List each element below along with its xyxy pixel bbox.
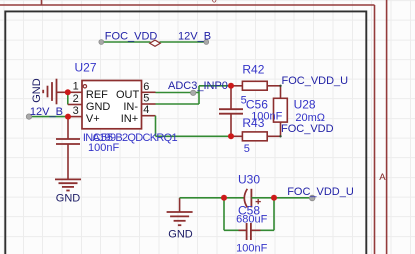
svg-text:4: 4 [143,104,149,116]
net label anchor (FOC_VDD) [279,135,281,137]
wire IN+ horizontal [156,135,232,137]
svg-text:100nF: 100nF [88,142,119,154]
wire OUT to ADC3_INP0 [156,92,200,94]
sheet frame outer right line [386,0,388,254]
net label anchor (FOC_VDD_U top) [279,85,281,87]
wire REF to GND pin tie [67,92,69,104]
resistor R43 [231,132,281,141]
svg-text:3: 3 [73,105,79,117]
svg-text:REF: REF [86,89,108,101]
junction dot (IN- / R42 / C56) [228,83,234,89]
svg-text:ADC3_INP0: ADC3_INP0 [168,80,228,92]
wire end dot (FOC_VDD) [99,40,104,45]
capacitor C55 [56,139,80,179]
wire IN- to R42 node [199,85,231,87]
pin 3 V+ [68,116,82,118]
svg-text:680uF: 680uF [236,214,267,226]
capacitor C56 [219,86,243,137]
U27 pin 1 indicator circle [83,85,86,88]
op-amp U27 body [82,81,142,129]
wire parallel loop right leg [273,198,275,231]
svg-text:GND: GND [168,228,193,240]
wire IN+ vertical [155,116,157,137]
svg-text:GND: GND [56,192,81,204]
svg-text:FOC_VDD_U: FOC_VDD_U [287,186,354,198]
wire bottom loop right [251,229,274,231]
wire FOC_VDD net [101,41,150,43]
wire 12V_B net [160,41,207,43]
junction dot (C58 left node) [221,195,227,201]
sheet frame zone divider tick [41,0,43,5]
svg-text:12V_B: 12V_B [178,30,211,42]
svg-text:FOC_VDD_U: FOC_VDD_U [282,75,349,87]
wire 12V_B to V+ [29,116,68,118]
svg-text:U27: U27 [75,61,97,75]
svg-text:IN+: IN+ [121,113,138,125]
junction dot (IN+ / R43 / C56) [228,133,234,139]
wire GND to C58 left node [180,197,224,199]
pin 2 GND [68,104,82,106]
svg-text:R42: R42 [242,63,264,77]
capacitor C58 (polarized 680uF) [244,189,251,208]
svg-text:FOC_VDD: FOC_VDD [105,30,158,42]
resistor R42 [231,81,281,90]
power netflag diamond [150,40,161,46]
wire to FOC_VDD_U label [274,197,314,199]
wire V+ node to C55 [67,117,69,139]
power symbol GND (rotated, left of U27) [43,79,68,105]
shunt resistor U28 [274,86,288,137]
ground symbol GND (below C55) [55,179,81,190]
net label anchor dot (ADC3_INP0) [191,90,196,95]
wire end dot (12V_B lower) [26,114,31,119]
junction dot (V+ node) [65,114,71,120]
svg-text:5: 5 [244,143,250,155]
wire C58 right [251,197,274,199]
svg-text:5: 5 [143,93,149,105]
wire parallel loop left leg [223,198,225,231]
pin 1 REF [68,91,82,93]
wire C58 left [224,197,244,199]
capacitor 100nF (vertical plates) [239,223,261,240]
svg-text:0: 0 [212,0,217,5]
svg-text:A: A [379,172,386,183]
ground symbol GND (middle bottom) [167,198,193,225]
net label anchor dot (FOC_VDD_U bottom) [309,195,315,201]
junction dot (REF/GND tie) [65,89,71,95]
svg-text:2: 2 [73,93,79,105]
svg-text:GND: GND [86,101,111,113]
svg-text:100nF: 100nF [251,111,282,123]
svg-text:IN-: IN- [123,101,138,113]
svg-text:12V_B: 12V_B [30,106,63,118]
wire end dot (12V_B) [204,40,209,45]
sheet frame inner right line [374,5,376,254]
svg-text:C56: C56 [246,98,268,112]
sheet frame inner top line [0,4,375,6]
svg-text:U30: U30 [238,173,260,187]
svg-text:V+: V+ [86,113,100,125]
svg-text:1: 1 [73,80,79,92]
svg-text:6: 6 [143,81,149,93]
pin 5 IN- [142,103,156,105]
svg-text:U28: U28 [294,98,316,112]
wire IN- vertical [198,86,200,104]
svg-text:GND: GND [31,78,43,103]
pin 4 IN+ [142,115,156,117]
pin 6 OUT [142,91,156,93]
svg-text:FOC_VDD: FOC_VDD [281,123,334,135]
polarity plus sign [256,199,261,204]
wire IN- horizontal [156,103,200,105]
svg-text:OUT: OUT [116,89,140,101]
wire bottom loop left [224,229,247,231]
svg-text:100nF: 100nF [236,243,267,254]
junction dot (C58 right node) [271,195,277,201]
